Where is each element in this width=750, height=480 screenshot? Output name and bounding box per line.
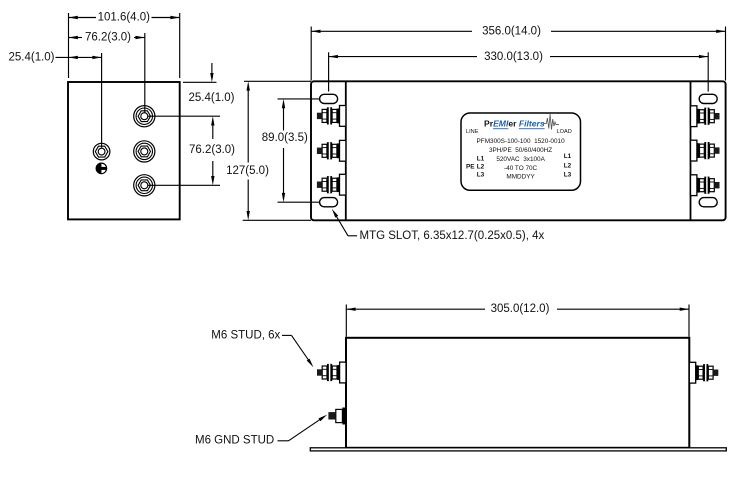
svg-text:101.6(4.0): 101.6(4.0) bbox=[98, 12, 151, 24]
M6 STUD callout bbox=[211, 329, 313, 367]
extension line from stud L1 bbox=[148, 115, 220, 117]
line-side stud L1 top view bbox=[317, 106, 346, 127]
front view ground stud bbox=[328, 408, 345, 425]
svg-text:76.2(3.0): 76.2(3.0) bbox=[189, 144, 235, 156]
MTG SLOT callout bbox=[332, 209, 545, 242]
dimension 25.4(1.0) right bbox=[188, 63, 234, 104]
dimension 89.0(3.5) bbox=[262, 99, 320, 202]
dimension 330.0(13.0) bbox=[329, 51, 709, 92]
product label plate bbox=[461, 113, 581, 190]
front view right stud bbox=[689, 362, 718, 383]
dimension 76.2(3.0) right bbox=[189, 116, 235, 185]
svg-text:L1: L1 bbox=[564, 153, 572, 160]
ground stud end view symbol bbox=[96, 163, 107, 174]
top view body right edge bbox=[690, 81, 692, 220]
svg-text:L2: L2 bbox=[477, 164, 485, 171]
mounting slot bottom-left bbox=[320, 198, 338, 207]
terminal stud end view bottom (L3) bbox=[134, 175, 155, 196]
svg-text:-40 TO 70C: -40 TO 70C bbox=[504, 165, 538, 172]
svg-text:L3: L3 bbox=[564, 172, 572, 179]
terminal stud end view top (L1) bbox=[134, 106, 155, 127]
svg-text:PE: PE bbox=[466, 164, 475, 171]
front view body outline bbox=[346, 338, 689, 448]
svg-text:356.0(14.0): 356.0(14.0) bbox=[482, 26, 541, 38]
svg-text:M6 STUD, 6x: M6 STUD, 6x bbox=[211, 329, 280, 341]
mounting slot bottom-right bbox=[699, 198, 717, 207]
svg-text:25.4(1.0): 25.4(1.0) bbox=[8, 52, 54, 64]
svg-text:PFM300S-100-100 1520-0010: PFM300S-100-100 1520-0010 bbox=[477, 138, 566, 145]
svg-text:89.0(3.5): 89.0(3.5) bbox=[262, 132, 308, 144]
svg-text:LOAD: LOAD bbox=[557, 129, 572, 135]
svg-text:L2: L2 bbox=[564, 162, 572, 169]
extension line top edge right bbox=[183, 81, 217, 83]
svg-text:3PH/PE 50/60/400HZ: 3PH/PE 50/60/400HZ bbox=[489, 147, 552, 154]
dimension 356.0(14.0) bbox=[311, 26, 725, 81]
front view left stud bbox=[317, 362, 346, 383]
svg-text:MMDDYY: MMDDYY bbox=[506, 174, 535, 181]
svg-text:305.0(12.0): 305.0(12.0) bbox=[491, 303, 550, 315]
label left terminals bbox=[466, 155, 485, 178]
load-side stud L1 top view bbox=[691, 106, 720, 127]
svg-text:LINE: LINE bbox=[466, 129, 479, 135]
PE stud end view bbox=[93, 143, 110, 160]
line-side stud L3 top view bbox=[317, 174, 346, 195]
logo PrEMIer Filters bbox=[484, 114, 559, 130]
top view body left edge bbox=[345, 81, 347, 220]
M6 GND STUD callout bbox=[195, 415, 327, 447]
mounting slot top-right bbox=[699, 94, 717, 103]
svg-text:MTG SLOT, 6.35x12.7(0.25x0.5),: MTG SLOT, 6.35x12.7(0.25x0.5), 4x bbox=[360, 230, 545, 242]
dimension 305.0(12.0) bbox=[346, 303, 689, 337]
terminal stud end view middle (L2) bbox=[134, 141, 155, 162]
load-side stud L2 top view bbox=[691, 140, 720, 161]
top view flange outline bbox=[311, 81, 726, 220]
dimension 101.6(4.0) bbox=[69, 12, 180, 78]
dimension 127(5.0) bbox=[226, 81, 311, 220]
svg-text:L1: L1 bbox=[477, 155, 485, 162]
front view base flange bbox=[310, 448, 726, 451]
mounting slot top-left bbox=[320, 94, 338, 103]
svg-text:76.2(3.0): 76.2(3.0) bbox=[85, 32, 131, 44]
svg-text:PrEMIer Filters: PrEMIer Filters bbox=[484, 118, 545, 128]
dimension 76.2(3.0) top bbox=[69, 32, 145, 113]
load-side stud L3 top view bbox=[691, 175, 720, 196]
svg-text:330.0(13.0): 330.0(13.0) bbox=[484, 51, 543, 63]
extension line from stud L3 bbox=[148, 184, 220, 186]
label right terminals bbox=[564, 153, 572, 178]
svg-text:M6 GND STUD: M6 GND STUD bbox=[195, 434, 274, 446]
svg-text:520VAC 3x100A: 520VAC 3x100A bbox=[496, 156, 545, 163]
line-side stud L2 top view bbox=[317, 140, 346, 161]
svg-text:127(5.0): 127(5.0) bbox=[226, 165, 269, 177]
end view body outline bbox=[68, 82, 180, 219]
svg-text:25.4(1.0): 25.4(1.0) bbox=[188, 92, 234, 104]
svg-text:L3: L3 bbox=[477, 172, 485, 179]
dimension 25.4(1.0) top-left bbox=[8, 52, 101, 148]
